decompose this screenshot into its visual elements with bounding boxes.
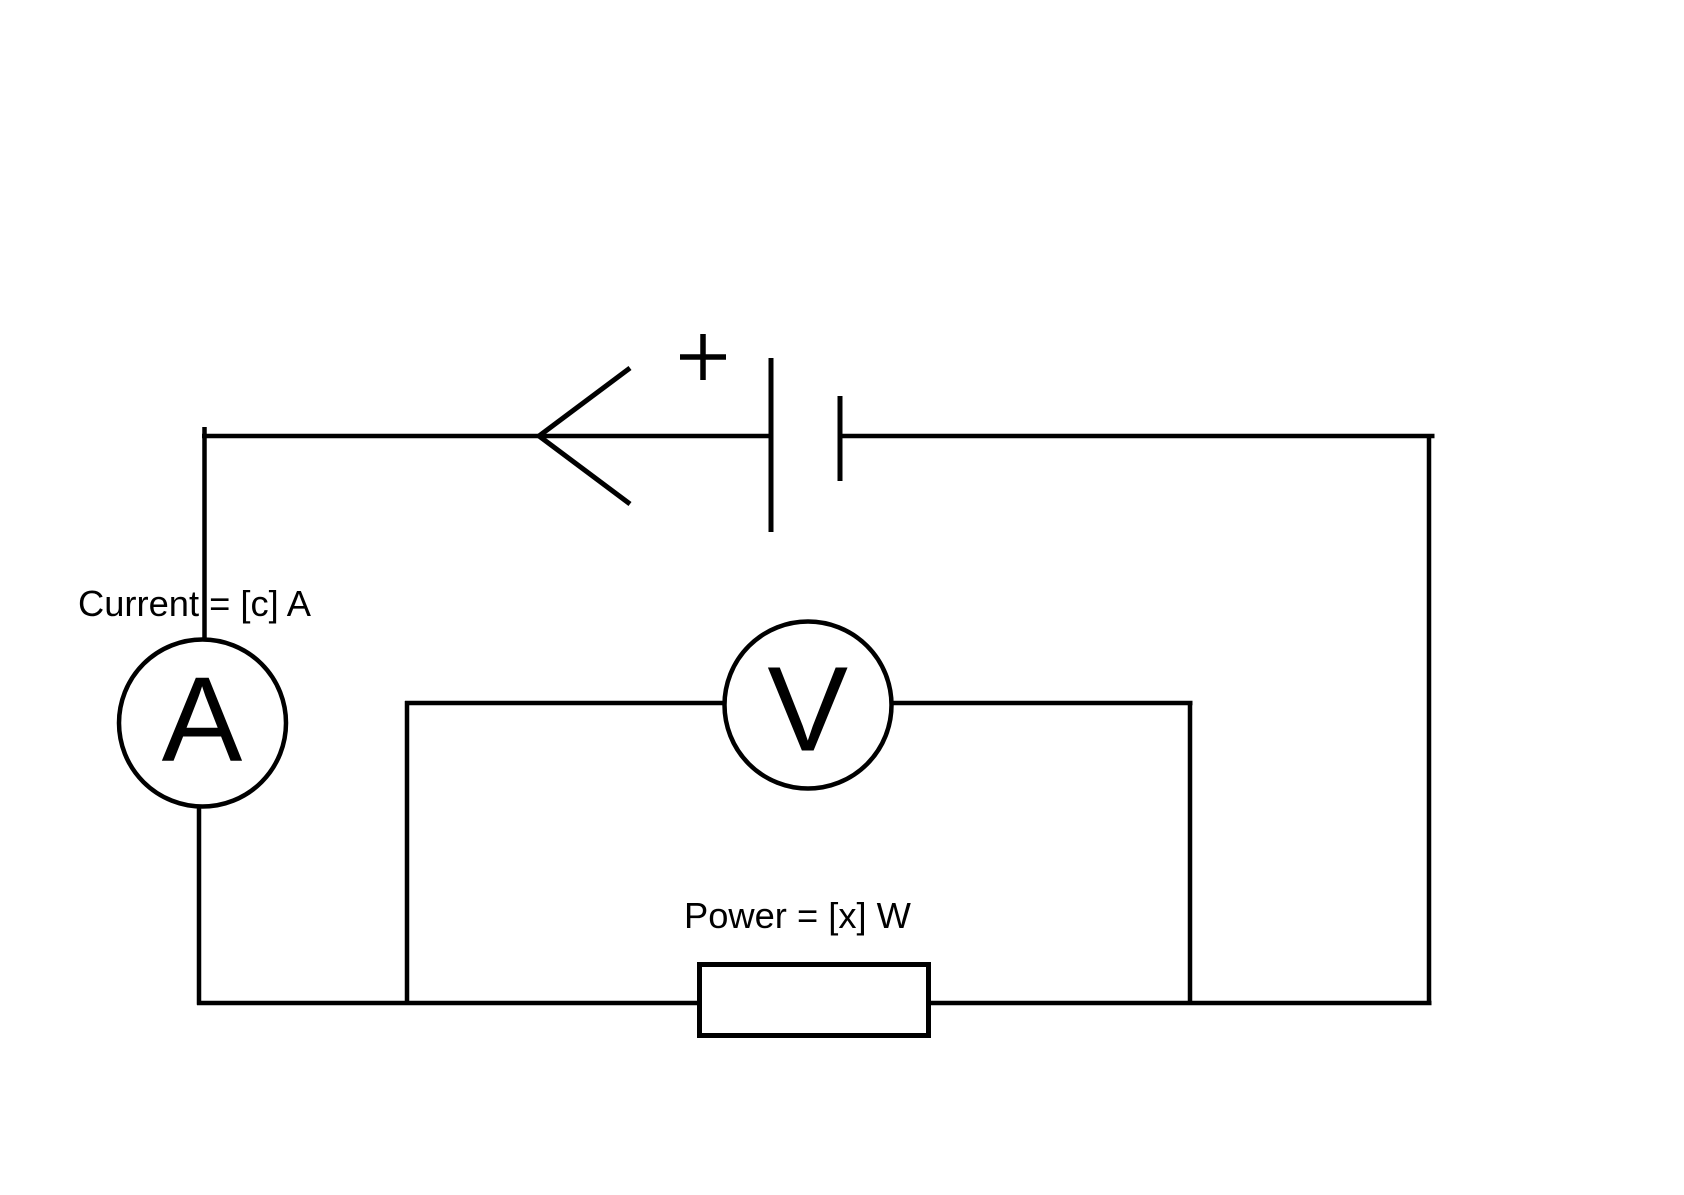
- svg-text:Power = [x] W: Power = [x] W: [684, 895, 912, 936]
- current direction arrow (lower arm): [539, 436, 630, 504]
- svg-text:A: A: [162, 651, 243, 787]
- ammeter A1 body: [119, 640, 286, 807]
- wire: top-left vertical segment (top rail down to ammeter top terminal): [202, 427, 207, 641]
- wire: voltmeter branch left horizontal: [405, 701, 725, 706]
- svg-text:V: V: [767, 641, 848, 777]
- wire: ammeter bottom terminal down to bottom-left corner: [197, 806, 202, 1005]
- wire: bottom rail: [197, 1001, 1432, 1006]
- wire: right vertical rail: [1427, 434, 1432, 1005]
- current direction arrow (upper arm): [539, 368, 630, 436]
- battery B1 polarity label +: [680, 334, 726, 380]
- wire: voltmeter branch right vertical: [1188, 703, 1193, 1003]
- battery B1 positive plate (long): [769, 358, 774, 532]
- battery B1 negative plate (short): [838, 396, 843, 481]
- wire: voltmeter branch right horizontal: [891, 701, 1193, 706]
- voltmeter V1 body: [725, 622, 892, 789]
- wire: voltmeter branch left vertical: [405, 701, 410, 1003]
- wire: top rail left segment (corner to battery positive plate): [202, 434, 771, 439]
- svg-text:Current = [c] A: Current = [c] A: [78, 583, 312, 624]
- resistor R1: [700, 965, 929, 1036]
- wire: top rail right segment (battery negative plate to top-right corner): [840, 434, 1435, 439]
